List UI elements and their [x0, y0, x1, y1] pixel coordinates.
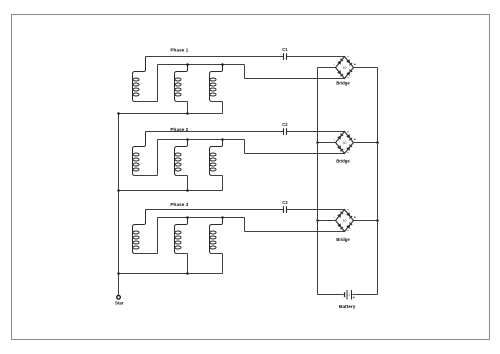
node L2B bottom junction: [186, 189, 189, 192]
bridge B1 diode left-to-bottom: [337, 70, 341, 74]
bridge B1 diode top-to-right: [346, 59, 350, 63]
bridge B2 diode left-to-top: [337, 136, 341, 140]
node L1B top junction: [186, 63, 189, 66]
battery BAT1: [344, 292, 346, 297]
wire bridge B3 left corner to negative bus: [318, 220, 336, 222]
wire phase1 top to C1: [146, 56, 284, 58]
svg-text:~: ~: [347, 229, 349, 233]
inductor L3B: [175, 218, 188, 254]
wire phase3 top to C3: [146, 209, 284, 211]
svg-text:C1: C1: [282, 47, 288, 52]
node positive bus junction at B2: [376, 141, 379, 144]
inductor L2B: [175, 140, 188, 176]
svg-text:-: -: [333, 63, 335, 67]
svg-text:Bridge: Bridge: [336, 237, 350, 242]
node negative bus junction at B3: [316, 219, 319, 222]
bridge B1 diode left-to-top: [337, 61, 341, 65]
inductor L3A: [133, 210, 146, 254]
wire phase2 drop to bridge bottom: [244, 140, 246, 154]
wire C1 to bridge B1 top: [287, 56, 345, 58]
wire bridge B1 left corner to negative bus: [318, 67, 336, 69]
wire L2A exit up to mid bus: [135, 175, 158, 177]
svg-text:~: ~: [347, 55, 349, 59]
wire L1B exit down to bottom bus: [177, 101, 188, 103]
wire phase1 bottom bus: [119, 113, 223, 115]
wire star bus vertical: [118, 114, 120, 296]
node positive bus junction at B3: [376, 219, 379, 222]
svg-text:3: 3: [348, 293, 350, 297]
capacitor C3 plates: [283, 206, 285, 213]
svg-text:Bridge: Bridge: [336, 158, 350, 163]
svg-text:~: ~: [347, 151, 349, 155]
svg-text:~: ~: [347, 76, 349, 80]
bridge rectifier B2 diamond: [336, 132, 354, 154]
svg-text:30: 30: [343, 219, 347, 223]
capacitor C1 plates: [283, 53, 285, 60]
wire positive bus vertical: [377, 68, 379, 295]
inductor L3C: [210, 218, 223, 254]
svg-text:+: +: [354, 216, 357, 220]
svg-text:~: ~: [347, 208, 349, 212]
svg-text:+: +: [354, 63, 357, 67]
wire bridge B2 left corner to negative bus: [318, 142, 336, 144]
wire battery plus to bottom: [353, 294, 378, 296]
inductor L2C: [210, 140, 223, 176]
wire negative bus vertical: [317, 68, 319, 295]
bridge B3 diode top-to-right: [346, 212, 350, 216]
svg-text:+: +: [354, 138, 357, 142]
bridge B2 diode top-to-right: [346, 134, 350, 138]
wire L3B exit down to bottom bus: [177, 253, 188, 255]
inductor L2A: [133, 132, 146, 176]
wire phase1 mid bus: [158, 64, 245, 66]
star terminal: [117, 295, 121, 299]
bridge rectifier B1 diamond: [336, 57, 354, 79]
svg-text:C2: C2: [282, 122, 288, 127]
node star bus junction phase1: [117, 112, 120, 115]
svg-text:Phase 1: Phase 1: [170, 47, 188, 52]
wire bottom to battery minus: [318, 294, 344, 296]
wire bridge B2 right corner to positive bus: [354, 142, 378, 144]
wire phase1 drop to bridge bottom: [244, 65, 246, 79]
svg-text:Bridge: Bridge: [336, 81, 350, 86]
node L1C top junction: [221, 63, 224, 66]
node L1B bottom junction: [186, 112, 189, 115]
bridge B2 diode bottom-to-right: [346, 147, 350, 151]
svg-text:Battery: Battery: [339, 304, 356, 310]
wire L2B exit down to bottom bus: [177, 175, 188, 177]
bridge B1 diode bottom-to-right: [346, 72, 350, 76]
inductor L1B: [175, 65, 188, 102]
bridge B3 diode bottom-to-right: [346, 225, 350, 229]
svg-text:Phase 3: Phase 3: [170, 202, 188, 207]
node star bus junction phase2: [117, 189, 120, 192]
wire C2 to bridge B2 top: [287, 131, 345, 133]
svg-text:C3: C3: [282, 200, 288, 205]
node L2C top junction: [221, 138, 224, 141]
svg-text:-: -: [333, 216, 335, 220]
wire phase2 top to C2: [146, 131, 284, 133]
wire phase3 drop to bridge bottom: [244, 218, 246, 232]
svg-text:30: 30: [343, 141, 347, 145]
wire phase3 mid bus: [158, 217, 245, 219]
svg-text:Star: Star: [115, 300, 124, 305]
wire phase2 mid bus: [158, 139, 245, 141]
bridge B2 diode left-to-bottom: [337, 145, 341, 149]
bridge B3 diode left-to-top: [337, 214, 341, 218]
wire L3C exit down to bottom bus: [212, 253, 223, 255]
wire L3A exit up to mid bus: [135, 253, 158, 255]
node L2B top junction: [186, 138, 189, 141]
inductor L1A: [133, 57, 146, 102]
svg-text:30: 30: [343, 66, 347, 70]
node L3B bottom junction: [186, 272, 189, 275]
node L3C top junction: [221, 216, 224, 219]
svg-text:+: +: [353, 295, 356, 300]
svg-text:-: -: [333, 138, 335, 142]
bridge rectifier B3 diamond: [336, 210, 354, 232]
node L3B top junction: [186, 216, 189, 219]
wire bridge B1 right corner to positive bus: [354, 67, 378, 69]
wire L1A exit up to mid bus: [135, 101, 158, 103]
wire phase2 bottom bus: [119, 190, 223, 192]
wire C3 to bridge B3 top: [287, 209, 345, 211]
wire phase3 bottom bus: [119, 273, 223, 275]
node star bus junction phase3: [117, 272, 120, 275]
node negative bus junction at B2: [316, 141, 319, 144]
inductor L1C: [210, 65, 223, 102]
wire L1C exit down to bottom bus: [212, 101, 223, 103]
wire bridge B3 right corner to positive bus: [354, 220, 378, 222]
capacitor C2 plates: [283, 128, 285, 135]
svg-text:~: ~: [347, 130, 349, 134]
wire L2C exit down to bottom bus: [212, 175, 223, 177]
bridge B3 diode left-to-bottom: [337, 223, 341, 227]
